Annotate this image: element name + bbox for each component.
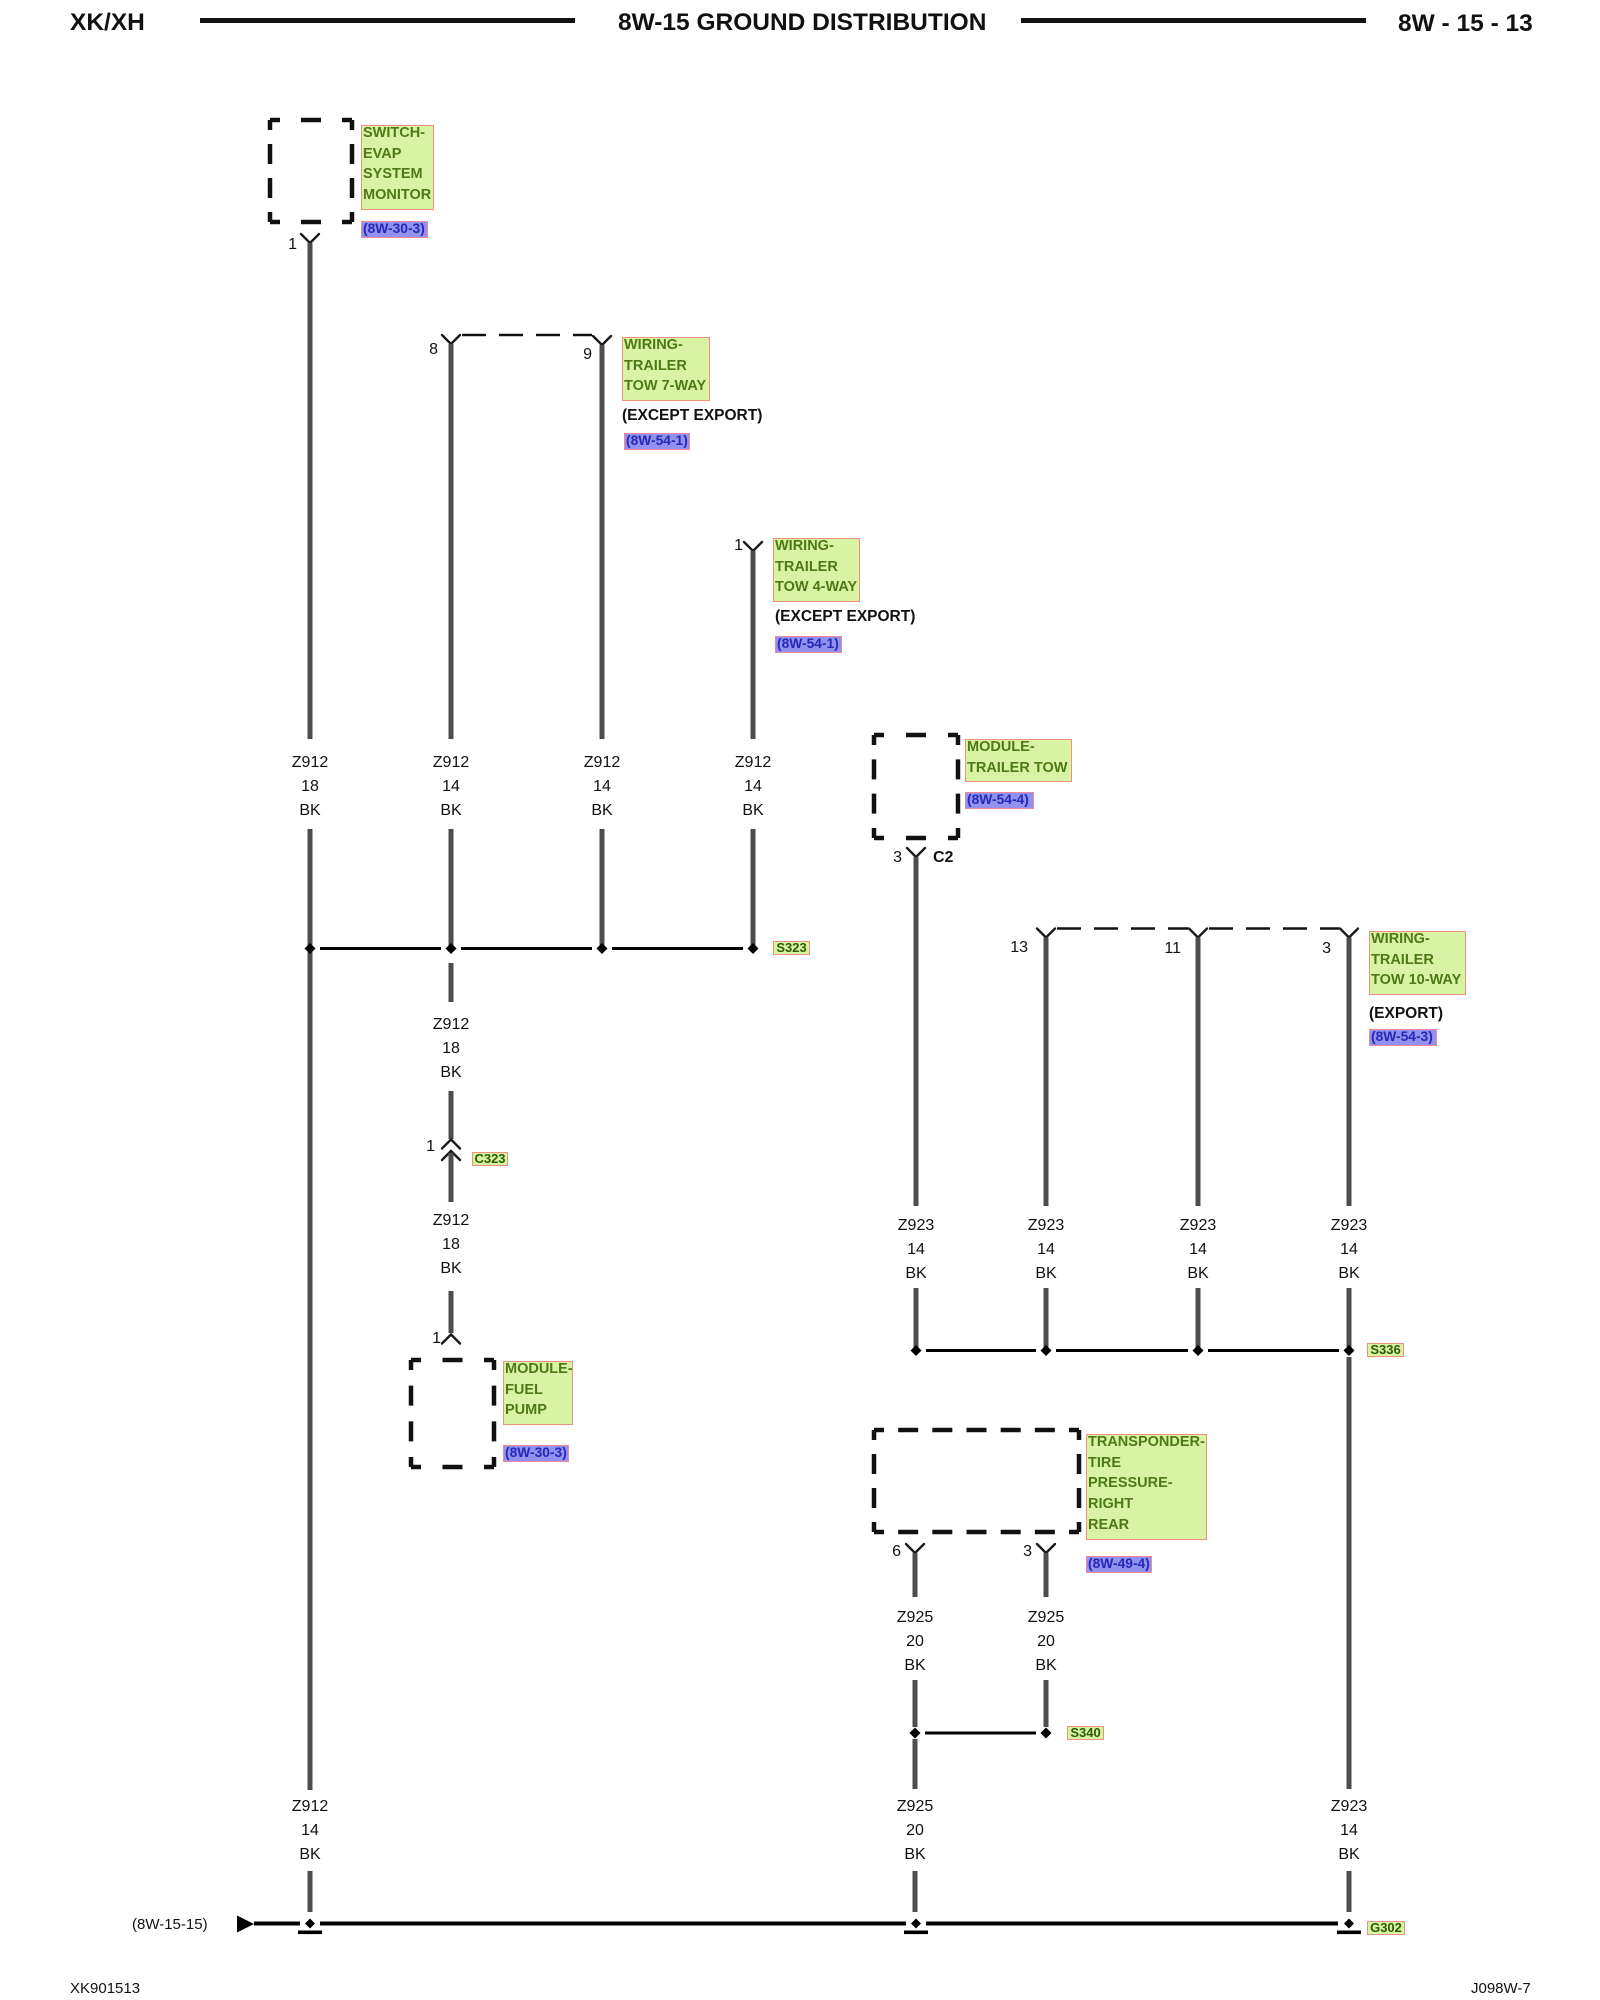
ground label G302 [1367,1921,1405,1935]
pin number 1 of switch-evap connector [267,237,297,253]
splice S336 horizontal line [926,1349,1339,1352]
wire Z912 18 BK below S323 on column B (segment above label) [449,963,454,1002]
pin number 13 of trailer tow 10-way [998,940,1028,956]
splice S336 diamond node at wire G [1193,1345,1204,1356]
ground tick below wire H junction [1337,1931,1361,1935]
splice S336 diamond node at wire F [1041,1345,1052,1356]
wire Z923 14 BK from C2 pin 3 (upper segment) [914,857,919,1206]
wire Z912 14 BK from pin 9 (upper segment) [600,345,605,739]
wire label Z925 20 BK column E bottom [875,1795,955,1867]
ground bus diamond node at wire E [911,1919,921,1929]
wire label Z923 14 BK column G [1158,1214,1238,1286]
header rule left [200,18,575,23]
10-way page reference 8W-54-3 [1369,1029,1437,1046]
splice S323 diamond node at wire C [597,943,608,954]
trailer tow 4-way connector pin 1 Y symbol [744,542,762,551]
wire Z912 18 BK below label to connector C323 [449,1091,454,1139]
wire label Z923 14 BK column E [876,1214,956,1286]
pin number 1 of fuel pump module [411,1331,441,1347]
module-trailer tow page reference 8W-54-4 [965,792,1034,809]
wire Z912 from pin 8 to splice S323 [449,829,454,946]
4-way page reference 8W-54-1 [775,636,842,653]
wire label Z925 20 BK column E2 [875,1606,955,1678]
wire Z923 from C2 pin 3 to splice S336 [914,1288,919,1348]
splice S323 diamond node at wire A [305,943,316,954]
wire label Z923 14 BK column H [1309,1214,1389,1286]
pin number 8 of trailer tow 7-way [408,342,438,358]
fuel pump module pin 1 chevron [442,1335,460,1344]
export note for 10-way [1369,1006,1443,1022]
except export note for 7-way [622,408,762,424]
wire label Z912 14 BK column D row 1 [713,751,793,823]
header center title [618,10,986,35]
pin number 6 of transponder [871,1544,901,1560]
ground bus G302 horizontal line [254,1922,1338,1926]
wire label Z923 14 BK column F [1006,1214,1086,1286]
trailer tow 10-way dashed body line pin11-pin3 [1209,927,1339,930]
splice label S336 [1367,1343,1404,1357]
wire Z925 20 BK below S340 [913,1739,918,1789]
transponder pin 6 Y symbol [906,1544,924,1553]
pin number 3 of trailer tow 10-way [1301,941,1331,957]
header left title XK/XH [70,10,145,35]
wire Z912 14 BK from 4-way pin 1 (upper segment) [751,551,756,739]
wire Z912 from 4-way pin 1 to splice S323 [751,829,756,946]
trailer tow 7-way connector pin 9 Y symbol [593,336,611,345]
wire Z923 14 BK from 10-way pin 11 (upper segment) [1196,938,1201,1207]
wire Z923 from pin 11 to splice S336 [1196,1288,1201,1348]
module-fuel pump label [503,1361,573,1425]
wire Z912 18 BK below C323 [449,1153,454,1202]
ground tick below wire E junction [904,1931,928,1935]
wire Z912 18 BK from switch-evap pin 1 (upper segment) [308,243,313,739]
pin 1 Y symbol of switch-evap connector [301,234,319,243]
wire Z912 from pin 9 to splice S323 [600,829,605,946]
off-page reference 8W-15-15 [132,1917,208,1932]
connector designator C2 [933,850,953,866]
connector C322 switch-evap dashed box [270,120,352,222]
transponder page reference 8W-49-4 [1086,1556,1152,1573]
wire Z912 continuation to ground (middle segment) [308,829,313,1790]
wire Z923 14 BK from 10-way pin 3 (upper segment) [1347,938,1352,1207]
wire Z923 from pin 3 to splice S336 [1347,1288,1352,1348]
except export note for 4-way [775,609,915,625]
ground bus arrow from 8W-15-15 [237,1916,254,1933]
footer right code [1471,1981,1531,1996]
fuel pump page reference 8W-30-3 [503,1445,569,1462]
footer left code [70,1981,140,1996]
in-line connector C323 upper chevron [442,1140,460,1149]
trailer tow 7-way connector pin 8 Y symbol [442,335,460,344]
ground bus diamond node at wire A [305,1919,315,1929]
wiring-trailer tow 7-way label [622,337,710,401]
pin number 11 of trailer tow 10-way [1151,941,1181,957]
wire label Z912 18 BK column B row 2 [411,1013,491,1085]
wire Z925 from pin 6 to splice S340 [913,1680,918,1727]
wire Z912 14 BK lower segment to ground bus [308,1871,313,1912]
ground bus diamond node at wire H [1344,1919,1354,1929]
module-trailer tow dashed box [874,735,958,838]
module-fuel pump dashed box [411,1360,494,1467]
trailer tow 10-way pin 13 Y symbol [1037,929,1055,938]
splice S323 diamond node at wire B [446,943,457,954]
splice S336 diamond node at wire H [1344,1345,1355,1356]
switch-evap page reference 8W-30-3 [361,221,428,238]
wire label Z923 14 BK column H bottom [1309,1795,1389,1867]
switch-evap system monitor label [361,125,434,210]
wire Z925 20 BK from transponder pin 3 (upper segment) [1044,1553,1049,1597]
ground tick below wire A junction [298,1931,322,1935]
wire Z923 14 BK lower segment to ground bus [1347,1871,1352,1912]
splice S340 horizontal line [925,1732,1036,1735]
in-line connector C323 lower chevron [442,1151,460,1160]
wiring-trailer tow 4-way label [773,538,860,602]
transponder pin 3 Y symbol [1037,1544,1055,1553]
pin number 3 of module-trailer tow [872,850,902,866]
transponder-tire pressure-right rear dashed box [874,1430,1079,1532]
trailer tow 10-way pin 11 Y symbol [1189,929,1207,938]
wire label Z912 14 BK column C row 1 [562,751,642,823]
wire Z912 14 BK from pin 8 (upper segment) [449,344,454,739]
7-way page reference 8W-54-1 [624,433,690,450]
wire label Z912 14 BK column A bottom [270,1795,350,1867]
trailer tow 10-way pin 3 Y symbol [1340,929,1358,938]
pin number 1 of trailer tow 4-way [713,538,743,554]
wire Z912 18 BK to fuel pump module pin 1 [449,1291,454,1333]
wire Z923 14 BK from 10-way pin 13 (upper segment) [1044,938,1049,1207]
wire label Z912 18 BK column A row 1 [270,751,350,823]
transponder-tire pressure-right rear label [1086,1434,1207,1540]
wire label Z912 14 BK column B row 1 [411,751,491,823]
module-trailer tow pin 3 connector C2 Y symbol [907,848,925,857]
in-line connector label C323 [472,1152,508,1166]
pin number 3 of transponder [1002,1544,1032,1560]
wire label Z912 18 BK column B row 3 [411,1209,491,1281]
splice S323 horizontal line [320,947,743,950]
header rule right [1021,18,1366,23]
header right page number [1398,11,1533,36]
splice label S340 [1067,1726,1104,1740]
wire Z923 14 BK below S336 toward ground [1347,1357,1352,1789]
splice S340 diamond node at wire E [910,1728,921,1739]
wiring-trailer tow 10-way label [1369,931,1466,995]
pin number 1 of in-line connector C323 [405,1139,435,1155]
wire Z925 20 BK from transponder pin 6 (upper segment) [913,1553,918,1597]
trailer tow 7-way connector dashed body line [462,334,592,337]
wire Z925 from pin 3 to splice S340 [1044,1680,1049,1727]
wire label Z925 20 BK column F2 [1006,1606,1086,1678]
splice S323 diamond node at wire D [748,943,759,954]
trailer tow 10-way dashed body line pin13-pin11 [1057,927,1188,930]
splice S336 diamond node at wire E [911,1345,922,1356]
splice S340 diamond node at wire F [1041,1728,1052,1739]
wire Z925 20 BK lower segment to ground bus [913,1871,918,1912]
splice label S323 [773,941,810,955]
module-trailer tow label [965,739,1072,782]
wire Z923 from pin 13 to splice S336 [1044,1288,1049,1348]
pin number 9 of trailer tow 7-way [562,347,592,363]
